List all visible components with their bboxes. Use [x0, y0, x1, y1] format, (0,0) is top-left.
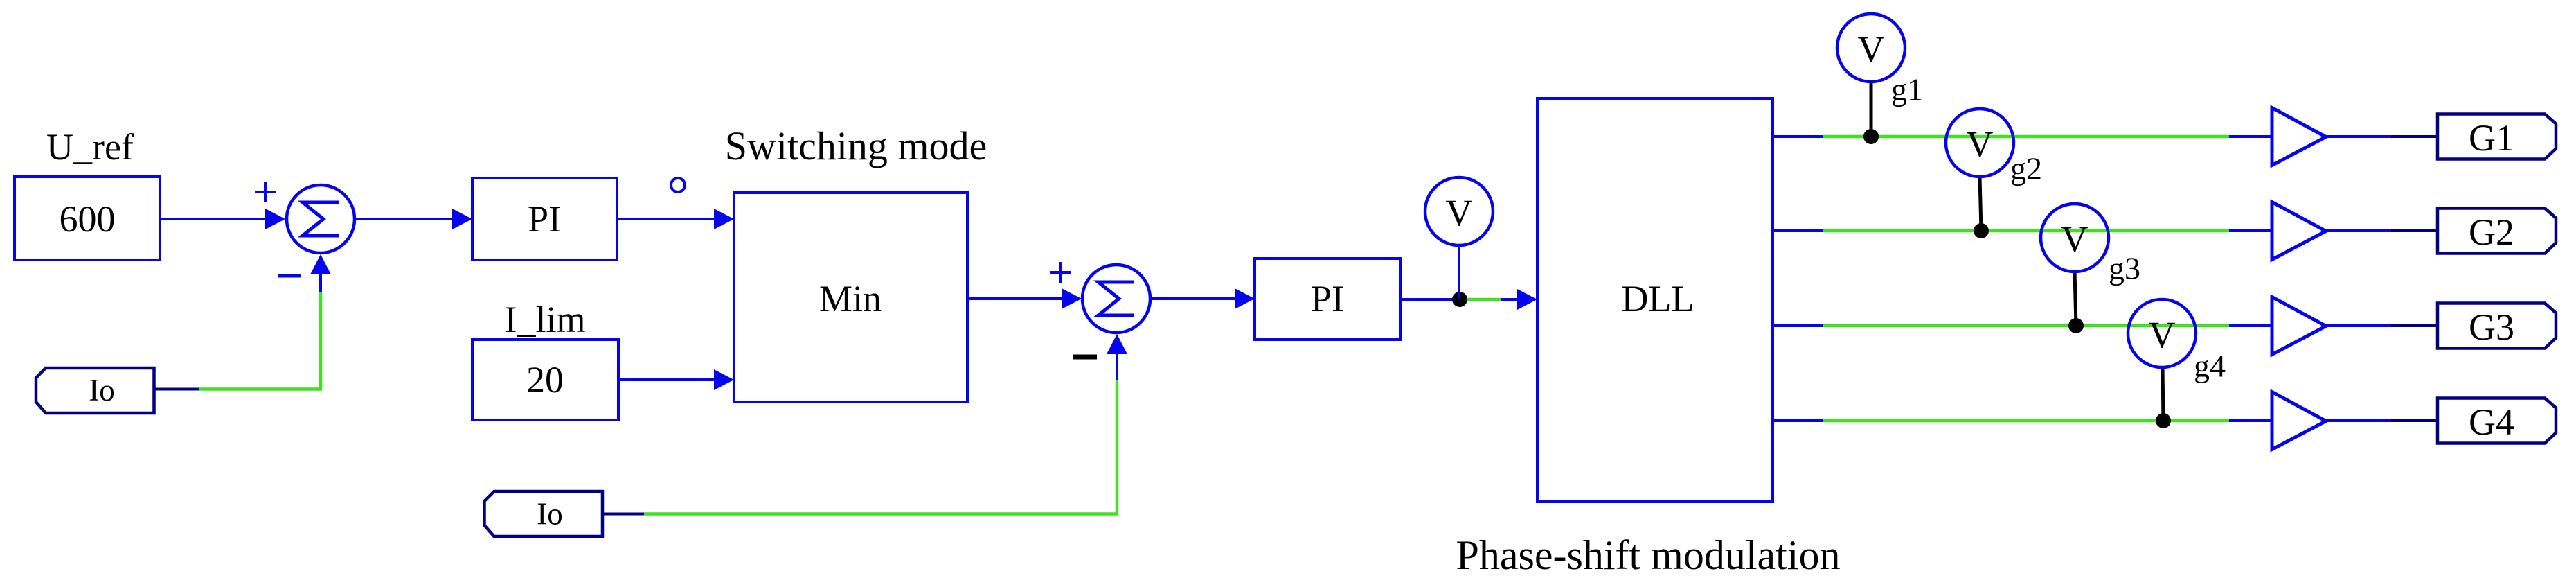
svg-text:g3: g3 — [2109, 251, 2140, 286]
svg-text:G1: G1 — [2469, 117, 2514, 159]
svg-text:PI: PI — [528, 198, 561, 240]
svg-text:V: V — [1967, 123, 1994, 165]
svg-text:PI: PI — [1311, 278, 1344, 319]
svg-text:V: V — [2149, 314, 2176, 356]
svg-text:G2: G2 — [2469, 211, 2514, 253]
svg-text:V: V — [2061, 218, 2088, 260]
svg-text:V: V — [1858, 28, 1885, 70]
svg-text:G3: G3 — [2469, 306, 2514, 348]
svg-text:Phase-shift modulation: Phase-shift modulation — [1456, 532, 1841, 578]
svg-text:Io: Io — [537, 497, 563, 532]
svg-text:G4: G4 — [2469, 401, 2514, 443]
svg-text:g2: g2 — [2010, 151, 2042, 186]
svg-text:DLL: DLL — [1622, 278, 1694, 319]
svg-text:I_lim: I_lim — [505, 299, 586, 340]
svg-text:Switching mode: Switching mode — [725, 123, 987, 168]
svg-text:U_ref: U_ref — [46, 126, 134, 168]
svg-text:Io: Io — [89, 373, 115, 408]
svg-text:g1: g1 — [1891, 72, 1923, 107]
svg-text:g4: g4 — [2194, 349, 2226, 384]
svg-text:20: 20 — [526, 359, 564, 401]
svg-text:Min: Min — [819, 278, 882, 319]
svg-text:600: 600 — [60, 198, 116, 240]
svg-text:V: V — [1446, 192, 1473, 234]
